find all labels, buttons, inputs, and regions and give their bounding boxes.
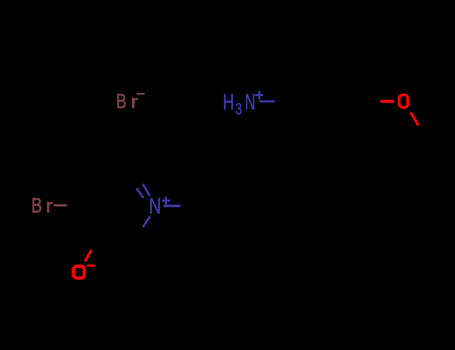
svg-text:N: N (149, 194, 161, 219)
svg-text:r: r (46, 195, 53, 217)
methoxy oxygen O (399, 95, 408, 108)
bond N-C(aryl) blue half, anilinium to benzene ring (259, 100, 275, 102)
bond C3-O red half, ring carbon down to olate oxygen (85, 250, 91, 261)
olate O- : superscript minus (87, 265, 95, 267)
anilinium group H3N+ : plus charge (255, 91, 263, 100)
svg-text:B: B (31, 194, 42, 218)
double bond C2=N blue half, outer line (143, 184, 150, 196)
olate oxygen O- (74, 266, 85, 278)
bond O-CH3 red half, methoxy oxygen to methyl (411, 112, 419, 125)
svg-text:3: 3 (235, 100, 242, 119)
bond Br-C3 dark red half, bromo to pyridinium ring (54, 204, 67, 206)
pyridinium N+ : plus charge (162, 197, 170, 205)
svg-text:N: N (245, 89, 255, 114)
bond C(aryl)-O red half, benzene ring to methoxy oxygen (380, 100, 394, 103)
bromide counterion Br- : superscript minus (137, 93, 145, 95)
svg-text:H: H (223, 91, 234, 115)
svg-text:B: B (116, 90, 126, 112)
svg-text:r: r (131, 92, 139, 113)
bond N-CH2 blue half, pyridinium N to N-alkyl group (164, 205, 181, 208)
bond N-C6 blue half, pyridinium N down-left into ring (143, 216, 150, 227)
double bond C2=N blue half, inner line (136, 188, 143, 198)
